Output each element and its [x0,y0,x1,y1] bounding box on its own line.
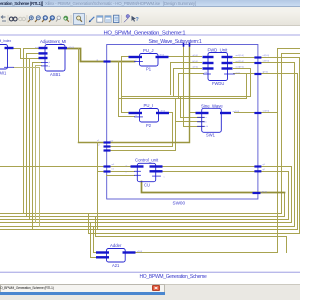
toolbar icon: help pointer [132,16,139,23]
svg-text:q[9:0]: q[9:0] [263,72,269,74]
svg-text:n1: n1 [112,169,115,171]
wire Sine_Wave thin2 [176,121,204,123]
svg-text:c[9:0]: c[9:0] [193,67,199,69]
active tab [0,284,165,292]
module frame bottom edge [1,271,301,273]
wire Control_unit heavy out [142,182,285,193]
subsystem port ticks right edge [253,56,262,194]
toolbar icon: split window [105,16,111,22]
wire Sine_Wave thin3 [184,45,204,127]
wire net sw0 drop [97,143,99,230]
svg-text:out3[9:0]: out3[9:0] [236,66,245,69]
wire FWD out3 loop [234,68,251,70]
component Adder [96,243,143,268]
svg-text:u1[9:0]: u1[9:0] [263,55,270,57]
wire stub Adjustment row4 [33,62,42,64]
svg-text:Sine_Wave_Subsystem:1: Sine_Wave_Subsystem:1 [149,39,202,45]
wire bus L3 [1,172,289,220]
subsystem port ticks top edge [183,43,191,47]
wire M_Index pin2 [14,67,40,69]
subsystem port labels left [97,59,116,170]
wire Control_unit in1 [1,166,131,168]
svg-text:HO_SPWM_Generation_Scheme:1: HO_SPWM_Generation_Scheme:1 [104,30,186,36]
svg-text:ASB1: ASB1 [50,72,61,77]
svg-text:j[9:0]: j[9:0] [159,55,165,57]
wire Sine_Wave out [235,112,278,114]
wire bus L4 [1,167,292,223]
wire branch to PU_I thin pin [119,62,135,117]
wire Adder out [136,252,278,254]
toolbar icon: zoom star2 [49,16,55,22]
wire PU_J left pin drop to PU_I [122,57,129,113]
svg-text:Control_unit: Control_unit [135,158,159,163]
toolbar icon: pressed toggle magnifier [74,14,85,25]
toolbar icon: binoculars disabled [19,17,26,20]
wire net sw0 heavy [79,45,190,143]
svg-text:sw[9:0]: sw[9:0] [263,111,270,113]
svg-text:nl: nl [49,66,51,68]
svg-text:b[9:0]: b[9:0] [193,61,199,63]
svg-text:Adder: Adder [110,243,122,248]
wire Control_unit out2 [163,171,289,173]
component Adjustment_MI [35,39,74,77]
toolbar icon: wrench [124,14,130,22]
wire bus L6 [1,74,298,230]
wire bus L5 [1,63,295,227]
svg-text:?: ? [136,17,139,23]
wire top corner V1 [24,48,39,50]
wire lower h y233 [89,58,300,234]
wire Adjustment out bus [59,49,135,62]
svg-text:out1[9:0]: out1[9:0] [236,54,245,57]
svg-text:d[9:0]: d[9:0] [262,191,268,193]
toolbar [0,12,300,26]
svg-text:s[9:0]: s[9:0] [137,251,143,253]
wire bus L2 [1,193,285,217]
wire loop pair upper [122,69,251,97]
blue underline [0,292,165,295]
wire M_Index out jog [14,49,39,59]
wire left vertical V6 [39,68,41,227]
wire FWD in2 feed [171,63,202,95]
svg-text:PU_J: PU_J [143,48,154,53]
wire left vertical V3 [29,59,31,220]
svg-text:SW1: SW1 [206,133,216,138]
svg-text:b: b [206,122,208,124]
wire FWD in3 feed [174,69,202,97]
svg-text:pl: pl [49,62,51,64]
svg-text:out2[9:0]: out2[9:0] [236,60,245,63]
toolbar icon: blue document [114,15,119,22]
svg-text:sw[9:0]: sw[9:0] [233,111,240,113]
svg-text:FWD_Unit: FWD_Unit [208,48,229,53]
svg-text:FWDU: FWDU [212,81,224,86]
component PU_I [129,103,170,128]
wire PU_I out drop to port [107,113,173,147]
svg-text:a: a [206,117,208,119]
toolbar icon: refresh zoom green [64,16,69,22]
wire FWD out1 [234,57,301,59]
wire port3 row [107,150,176,152]
svg-text:SW00: SW00 [173,200,186,205]
svg-text:m1: m1 [112,164,116,166]
wire Control_unit in3 [107,175,135,177]
subsystem Sine_Wave_Subsystem box [107,45,258,200]
toolbar icon: nav glyph [1,16,6,22]
svg-text:a[9:0]: a[9:0] [193,55,199,57]
wire Sine_Wave thin1 feed [180,97,182,118]
svg-text:A21: A21 [112,263,120,268]
subsystem port ticks left edge [104,60,111,172]
svg-text:CU: CU [144,183,150,188]
toolbar icon: zoom in [28,16,33,22]
svg-text:ad[9:0]: ad[9:0] [68,47,75,49]
svg-text:s: s [164,176,165,178]
svg-text:i[9:0]: i[9:0] [161,111,166,113]
wire Adder out riser [277,49,279,253]
svg-text:q1: q1 [263,164,266,166]
svg-text:Adjustment_MI: Adjustment_MI [40,39,66,44]
svg-text:m: m [126,165,128,167]
toolbar icon: zoom grey [56,16,61,22]
svg-text:q2: q2 [263,169,266,171]
tab close button [152,285,160,291]
wire Control_unit in2 [98,171,135,173]
svg-text:M_Index: M_Index [0,39,11,43]
component Control_unit [126,158,165,188]
svg-text:PU_I: PU_I [144,103,154,108]
wire to Adjustment pin row2 [27,53,39,55]
toolbar icon: wire tool [89,17,95,23]
wire left vertical V5 [35,66,37,223]
toolbar icon: zoom out [35,16,40,22]
wire left vertical V1 [23,49,25,214]
svg-text:Sine_Wave: Sine_Wave [201,104,223,109]
svg-text:s2: s2 [98,145,101,147]
tab bar [0,284,300,300]
wire FWD in4 thin [179,74,204,99]
wire Sine_Wave thin2 feed [175,99,177,151]
toolbar icon: binoculars find [9,17,17,21]
wire lower h y236 [96,217,287,253]
wire Sine_Wave thin1 + in bar stub [181,113,204,118]
wire PU_J out to FWD in1 [169,56,202,58]
title bar [0,0,300,7]
module frame top edge [1,34,301,36]
wire Adjustment out branch down [78,49,80,143]
wire left vertical V2 [26,54,28,217]
component Sine_Wave [196,104,240,138]
toolbar icon: cascade windows [97,16,103,22]
component FWD_Unit [193,48,245,87]
wire Adder in1 feeder [94,227,97,253]
wire loop pair lower [119,74,247,99]
wire Adder in2 feeder [91,223,97,258]
svg-text:P1: P1 [146,67,152,72]
wire bus L1 [1,54,301,214]
wire left vertical V4 [32,63,34,230]
component M_Index [0,39,14,76]
svg-text:MI1: MI1 [0,71,7,76]
wire FWD out4 [234,73,298,75]
component PU_J [129,48,169,72]
menu strip [0,7,300,12]
svg-text:P2: P2 [146,123,152,128]
svg-text:clk: clk [206,126,210,128]
wire FWD out2 [234,62,295,64]
wire Control_unit out1 [163,166,292,168]
svg-text:HO_BPWM_Generation_Scheme: HO_BPWM_Generation_Scheme [140,274,207,280]
wire top right corner1 [278,48,301,50]
svg-text:s1: s1 [97,140,100,142]
subsystem port labels right [262,55,270,193]
toolbar icon: zoom star1 [42,16,48,22]
svg-text:u2[9:0]: u2[9:0] [263,61,270,63]
wire stub Adjustment row5 [36,65,42,67]
